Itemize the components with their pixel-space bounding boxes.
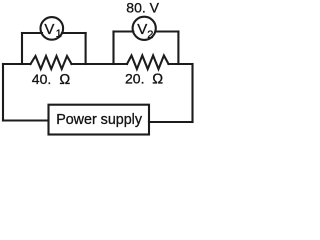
svg-text:Power supply: Power supply	[56, 112, 143, 128]
wire main top line left segment	[3, 63, 31, 65]
wire bottom right from power supply	[149, 121, 193, 123]
voltmeter V1 circle	[41, 17, 64, 40]
wire voltmeter V1 bracket left vertical	[21, 33, 23, 64]
svg-text:Ω: Ω	[59, 72, 70, 88]
wire voltmeter V2 bracket right vertical	[177, 32, 179, 65]
svg-text:V: V	[137, 21, 147, 38]
resistor R2 (20 ohm) zigzag	[127, 56, 169, 70]
power supply box	[49, 105, 150, 135]
voltmeter V2 circle	[133, 17, 156, 40]
wire outer right vertical	[191, 64, 193, 122]
wire voltmeter V2 bracket right horizontal	[155, 30, 178, 32]
resistor R1 (40 ohm) zigzag	[31, 56, 72, 69]
wire outer left vertical	[2, 64, 4, 121]
svg-text:20.: 20.	[125, 71, 144, 87]
svg-text:Ω: Ω	[152, 72, 163, 88]
wire voltmeter V1 bracket right horizontal	[62, 32, 86, 34]
wire voltmeter V1 bracket left horizontal	[22, 32, 42, 34]
wire voltmeter V2 bracket left horizontal	[114, 30, 134, 32]
svg-text:40.: 40.	[32, 71, 51, 87]
svg-text:2: 2	[147, 29, 153, 41]
wire bottom left to power supply	[3, 119, 48, 121]
svg-text:1: 1	[56, 28, 62, 40]
svg-text:V: V	[44, 21, 54, 38]
wire main top line middle segment	[72, 63, 128, 65]
wire voltmeter V1 bracket right vertical	[85, 33, 87, 64]
wire voltmeter V2 bracket left vertical	[112, 32, 114, 65]
wire main top line right segment	[169, 63, 193, 65]
svg-text:80. V: 80. V	[126, 0, 159, 15]
